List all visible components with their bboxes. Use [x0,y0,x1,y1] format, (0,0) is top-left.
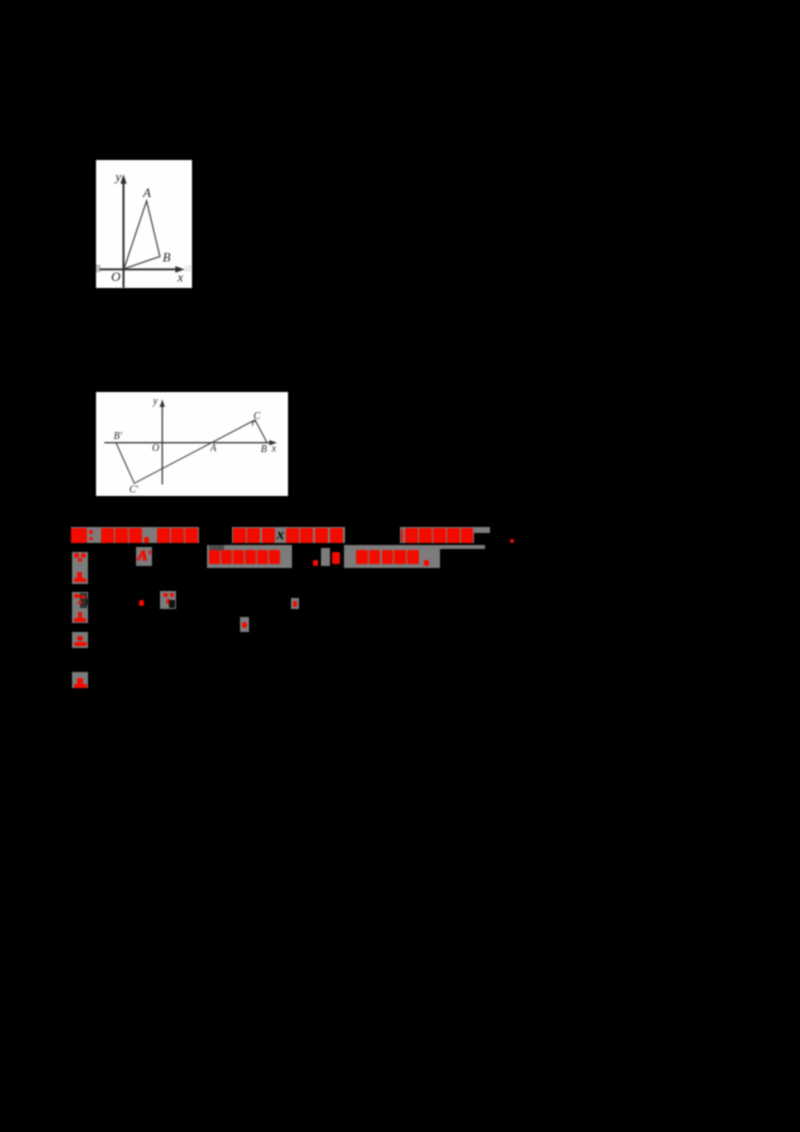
figure 1: white image box with triangle OAB on axes [96,160,192,288]
solution line 1 period [510,539,514,543]
line 5: left field with dot and bars [72,632,88,648]
svg-text:B: B [163,249,171,264]
black italic x over gray [275,526,287,544]
dark appendage [86,599,89,605]
pale handle right of x-axis arrow [185,265,192,272]
y-axis arrowhead [120,174,126,183]
line 3: left field with because symbol [72,592,88,623]
x-axis arrowhead [175,266,184,273]
svg-text:O: O [111,269,121,284]
svg-text:B: B [260,444,266,455]
svg-text:A: A [209,443,217,454]
y-axis arrowhead [159,399,164,407]
triangle OAB [124,200,160,268]
y-axis [123,180,125,288]
line 3: gray field with red dots [160,591,176,610]
line 2: left field with because/therefore symbols [72,552,88,585]
line 2: gray field with red text [207,545,292,568]
pale handle left of x-axis [96,264,101,272]
line 2: gray field with red text (wei xuan zhuan zhong xin) [344,545,440,569]
line 3: small gray with red oval [291,598,300,610]
because symbol [74,553,78,557]
svg-text:y: y [113,169,121,184]
svg-text:A: A [142,185,151,200]
line 2: equation field with red A' [136,547,152,567]
polyline B' C' C B [116,420,267,483]
dark sub-block [80,593,87,608]
line 2: red char [332,552,341,564]
svg-text:x: x [177,269,184,284]
svg-text:C': C' [129,485,139,496]
therefore symbol lower [78,612,82,618]
line 6: left field with therefore symbol [72,672,88,688]
line 2: small gray field [321,548,330,566]
x-axis [104,442,272,444]
solution line 1 segment A: gray field with red text [71,527,200,543]
svg-text:C: C [253,411,260,422]
svg-text:y: y [152,396,158,407]
right angle mark at C [252,422,256,426]
svg-text:x: x [270,444,276,455]
line 2: thin gray strip right [440,545,485,549]
x-axis arrowhead [269,440,277,445]
y-axis [161,405,163,485]
solution line 1 segment B: gray field, red text, black italic x [232,527,345,543]
because marks [74,594,80,598]
line 3: small red mark [139,600,144,607]
svg-text:B': B' [113,431,122,442]
figure 2: white image box with quadrilateral B'C'CB on axes [96,392,288,496]
line 4: gray patch with red dot [240,617,249,632]
line 2: red comma [313,560,318,567]
svg-text:O: O [152,443,159,454]
x-axis [100,268,177,270]
solution line 1 segment C: gray field with red text, black-covered tail [400,527,490,543]
therefore symbol [77,572,81,579]
